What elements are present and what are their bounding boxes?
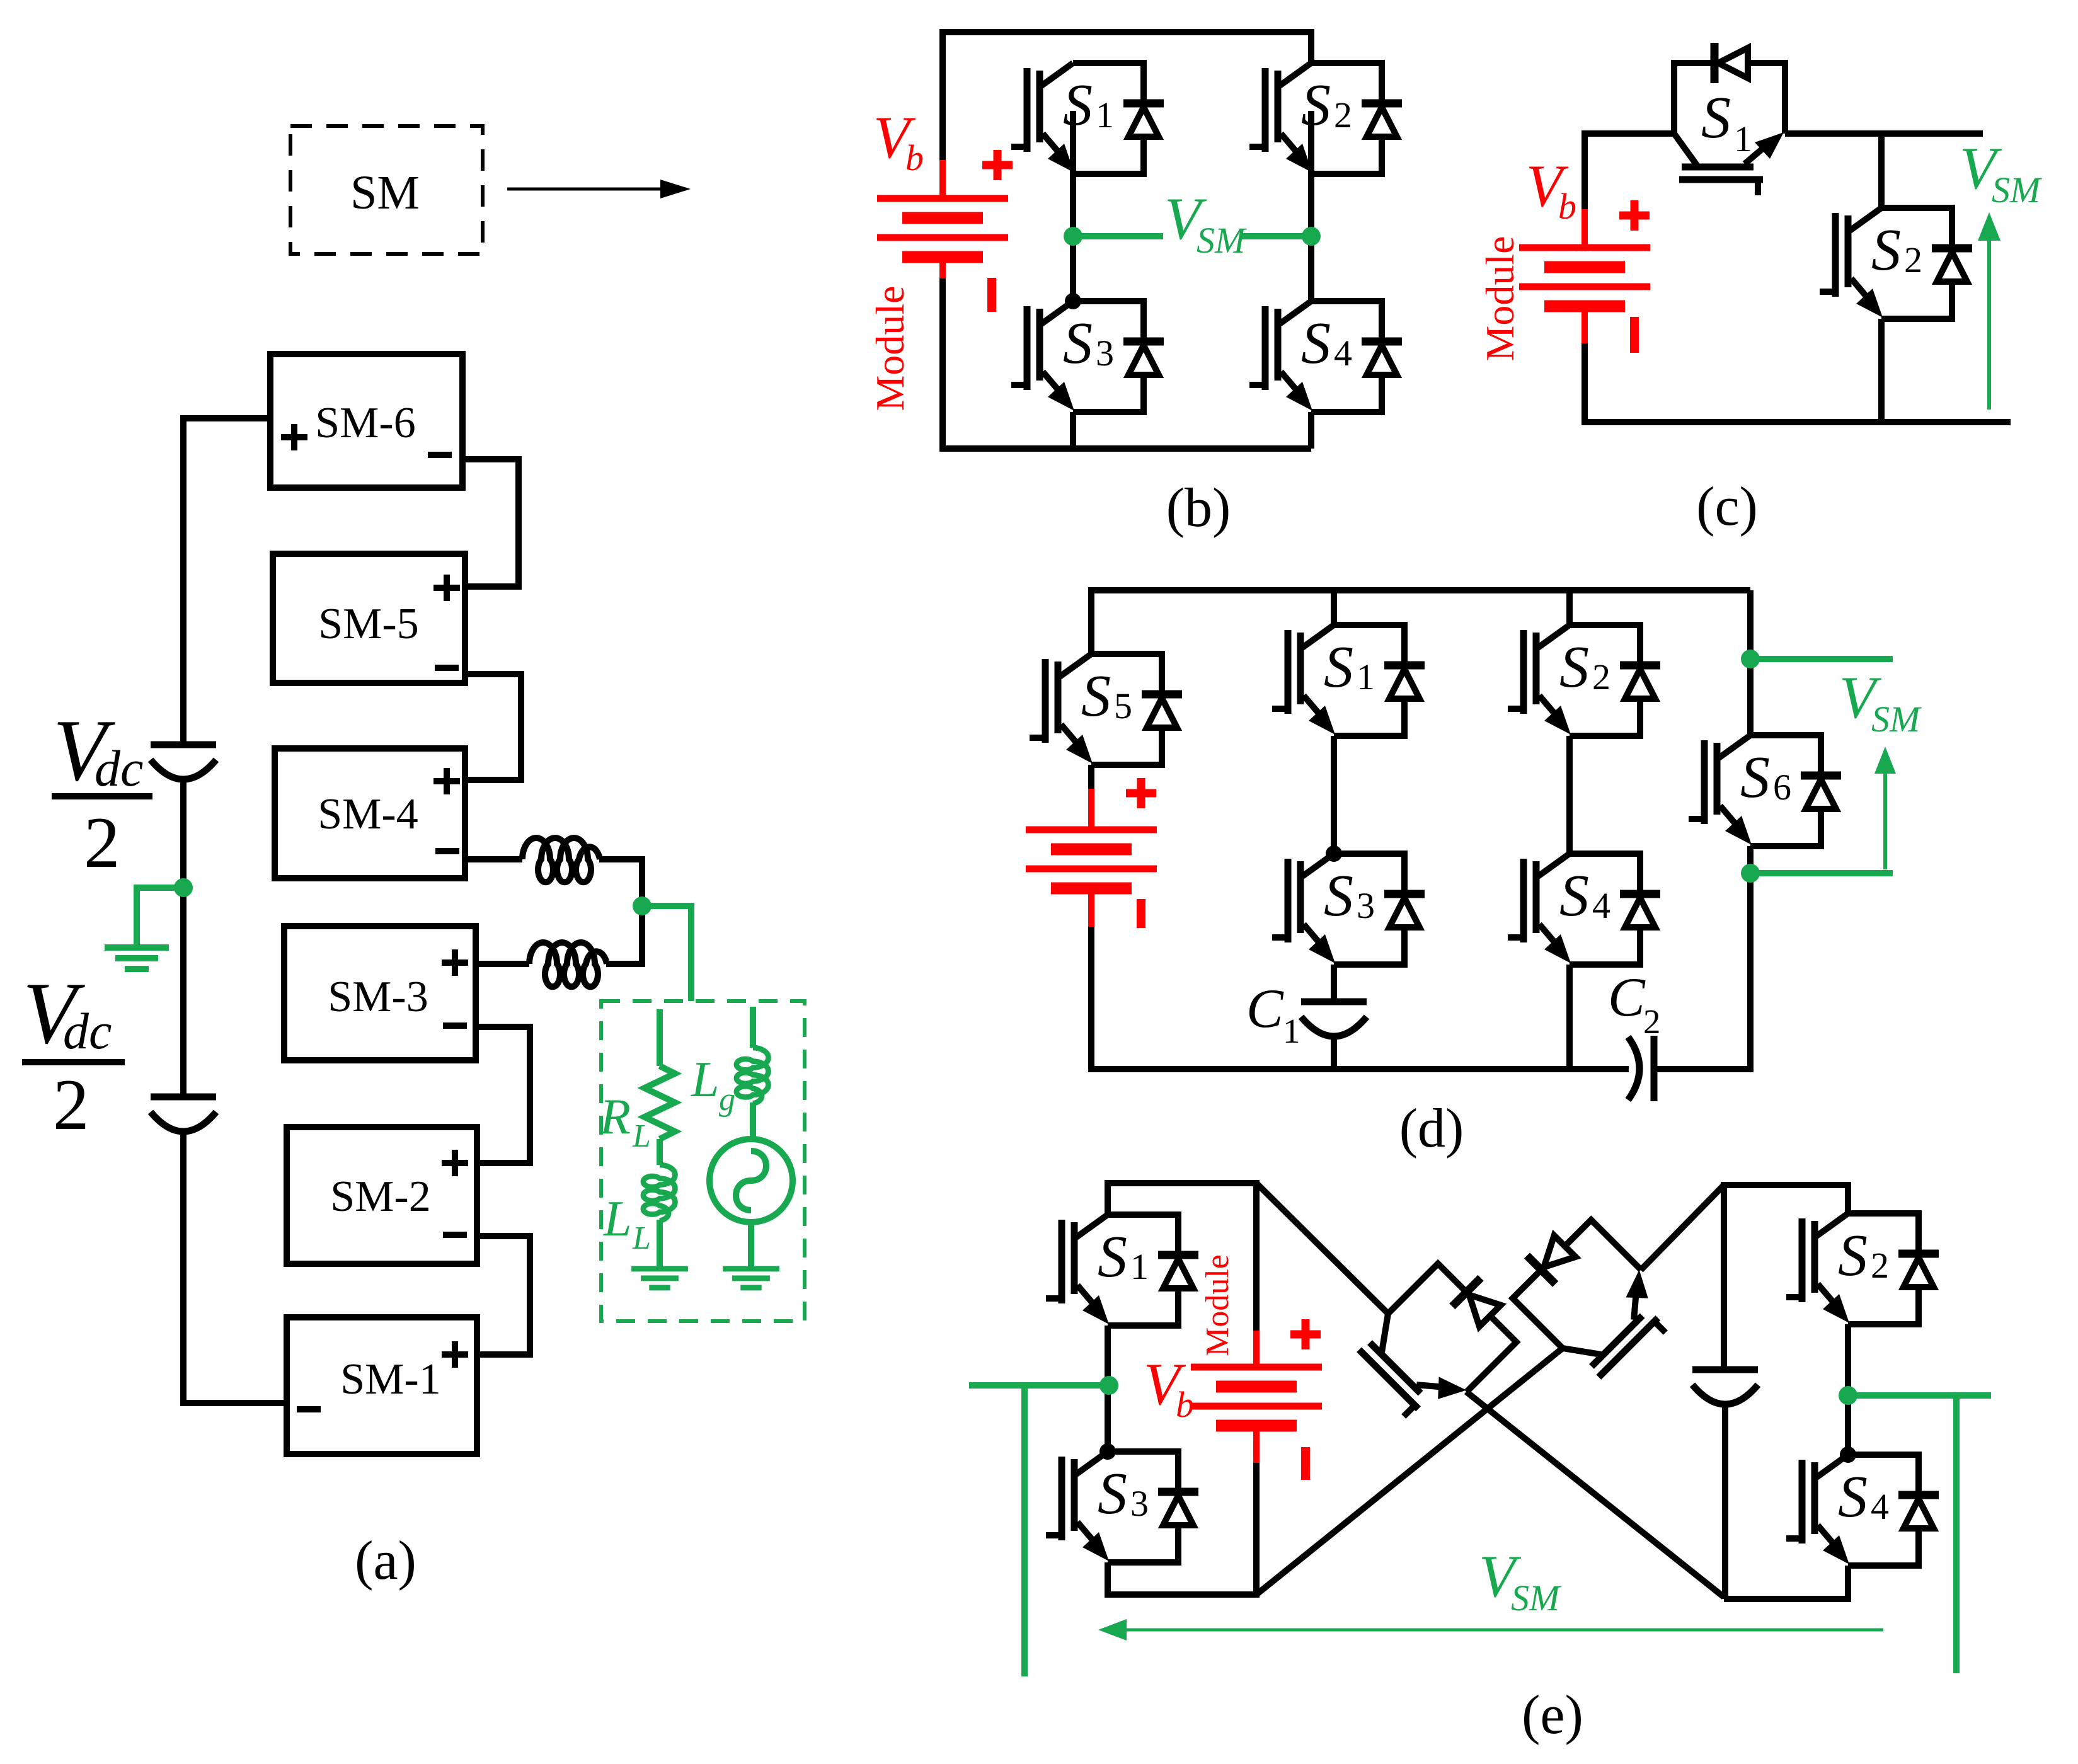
label Vdc/2 lower xyxy=(23,965,112,1145)
wire S3 emitter to C1 xyxy=(1331,965,1337,1002)
wire S2 emitter to bottom rail xyxy=(1878,319,1885,422)
igbt S2 xyxy=(1820,208,1972,319)
ground source branch xyxy=(723,1269,779,1288)
wire SM-6 to SM-5 xyxy=(462,459,519,587)
svg-text:L: L xyxy=(603,1191,632,1247)
wire cross diagonal 1 lower xyxy=(1466,1392,1724,1597)
svg-text:S: S xyxy=(1098,1224,1127,1290)
svg-text:SM-3: SM-3 xyxy=(328,973,428,1021)
svg-text:(b): (b) xyxy=(1166,478,1231,539)
svg-text:S: S xyxy=(1838,1464,1868,1530)
inductor upper arm xyxy=(522,838,600,882)
battery Vb xyxy=(868,104,1013,411)
svg-text:2: 2 xyxy=(1643,1002,1661,1041)
wire S1 to S3 xyxy=(1331,736,1337,854)
svg-text:4: 4 xyxy=(1871,1486,1889,1527)
capacitor C2 xyxy=(1628,1037,1639,1100)
wire SM-3 to SM-2 xyxy=(476,1027,530,1163)
svg-text:Module: Module xyxy=(1478,236,1522,361)
wire S4 emitter to bottom rail xyxy=(1566,965,1573,1069)
svg-text:SM-5: SM-5 xyxy=(318,600,418,648)
output node and feeder (green) xyxy=(599,896,805,1321)
submodule box SM-1 xyxy=(287,1317,477,1454)
svg-text:1: 1 xyxy=(1130,1246,1149,1287)
node VSM left (green) xyxy=(1064,185,1321,261)
svg-text:b: b xyxy=(905,137,924,178)
wire S4 emitter to bottom rail xyxy=(1724,1566,1848,1599)
wire SM-2 to SM-1 xyxy=(477,1236,530,1354)
igbt S2 xyxy=(1786,1213,1939,1324)
svg-text:S: S xyxy=(1301,72,1331,138)
igbt S4 xyxy=(1508,854,1660,965)
wire top rail xyxy=(1091,590,1750,654)
svg-text:SM-2: SM-2 xyxy=(330,1172,430,1221)
submodule box SM-2 xyxy=(287,1127,477,1264)
svg-text:SM: SM xyxy=(1511,1578,1561,1618)
svg-text:b: b xyxy=(1176,1384,1194,1425)
inductor Lg xyxy=(737,1048,769,1104)
resistor RL xyxy=(645,1066,675,1139)
svg-text:2: 2 xyxy=(1334,94,1352,135)
label C2 xyxy=(1608,967,1661,1041)
capacitor Vdc/2 upper xyxy=(151,745,216,779)
svg-text:2: 2 xyxy=(53,1065,89,1145)
node S3 collector xyxy=(1099,1443,1116,1460)
wire S1 emitter to S3 xyxy=(1105,1326,1111,1452)
svg-text:(e): (e) xyxy=(1522,1685,1583,1746)
svg-text:S: S xyxy=(1081,663,1111,729)
svg-text:3: 3 xyxy=(1096,333,1114,374)
wire cross diagonal 1 xyxy=(1256,1183,1388,1314)
output nodes (green) xyxy=(1741,650,1922,883)
svg-text:L: L xyxy=(632,1220,651,1256)
capacitor right group xyxy=(1692,1370,1758,1404)
battery Vb xyxy=(1144,1254,1322,1480)
igbt cross A xyxy=(1345,1249,1531,1436)
node S3 collector xyxy=(1065,293,1081,309)
svg-text:dc: dc xyxy=(95,740,143,797)
svg-text:1: 1 xyxy=(1096,94,1114,135)
svg-text:SM-4: SM-4 xyxy=(318,790,418,839)
svg-text:S: S xyxy=(1701,85,1731,151)
label VSM and arrow xyxy=(1839,664,1922,740)
svg-text:(a): (a) xyxy=(355,1530,416,1591)
igbt S5 xyxy=(1030,654,1182,765)
wire S2 emitter to S4 xyxy=(1845,1324,1851,1455)
svg-text:S: S xyxy=(1324,863,1353,929)
svg-text:5: 5 xyxy=(1114,685,1132,726)
svg-text:3: 3 xyxy=(1130,1483,1149,1524)
wire S2 to S4 xyxy=(1566,736,1573,854)
svg-text:S: S xyxy=(1063,72,1093,138)
wire S2 collector xyxy=(1878,134,1885,208)
label Vdc/2 upper xyxy=(53,702,143,883)
svg-text:C: C xyxy=(1246,978,1284,1039)
igbt S1 xyxy=(1272,625,1425,736)
svg-text:1: 1 xyxy=(1357,656,1375,697)
output terminals (green) xyxy=(969,1376,1991,1676)
node S3 collector xyxy=(1326,845,1342,862)
svg-text:1: 1 xyxy=(1283,1012,1300,1050)
svg-text:g: g xyxy=(719,1082,735,1118)
label VSM and arrow (green) xyxy=(1960,135,2042,409)
svg-text:SM: SM xyxy=(350,166,420,219)
SM legend dashed box xyxy=(290,126,483,254)
igbt S1 xyxy=(1011,63,1164,174)
svg-text:Module: Module xyxy=(868,285,912,411)
wire S5 emitter to battery xyxy=(1088,765,1094,791)
svg-text:S: S xyxy=(1324,634,1353,700)
wire S3 emitter to bottom xyxy=(1108,1462,1256,1595)
submodule box SM-6 xyxy=(270,354,462,488)
svg-text:2: 2 xyxy=(1871,1245,1889,1286)
ground at dc midpoint xyxy=(105,878,193,969)
svg-text:SM-1: SM-1 xyxy=(340,1355,440,1404)
igbt S4 xyxy=(1249,301,1402,412)
wire S3 emitter to bottom rail xyxy=(1070,412,1076,449)
igbt S4 xyxy=(1786,1455,1939,1566)
svg-text:2: 2 xyxy=(1904,239,1922,280)
svg-text:dc: dc xyxy=(63,1002,112,1060)
igbt S2 xyxy=(1508,625,1660,736)
svg-text:2: 2 xyxy=(1592,656,1610,697)
wire bottom rail xyxy=(1585,342,2011,422)
label C1 xyxy=(1246,978,1300,1050)
wire VSM link xyxy=(1073,233,1163,239)
inductor LL xyxy=(643,1165,675,1221)
wire top rail xyxy=(943,32,1311,160)
node S4 collector xyxy=(1840,1446,1856,1463)
svg-text:S: S xyxy=(1063,311,1093,376)
wire S2 emitter to node xyxy=(1308,111,1314,301)
svg-text:L: L xyxy=(632,1118,651,1154)
svg-text:S: S xyxy=(1098,1461,1127,1526)
svg-text:S: S xyxy=(1559,634,1589,700)
wire SM-3 to arm node xyxy=(476,961,529,967)
wire top rail left group xyxy=(1108,1183,1256,1334)
svg-text:(d): (d) xyxy=(1399,1098,1464,1159)
svg-text:3: 3 xyxy=(1357,885,1375,926)
svg-text:2: 2 xyxy=(84,803,120,883)
wire bottom rail xyxy=(943,277,1311,449)
svg-text:4: 4 xyxy=(1334,333,1352,374)
wire S4 emitter to bottom rail xyxy=(1308,412,1314,449)
igbt S1 rotated xyxy=(1674,43,1785,195)
wire S1 collector xyxy=(1331,590,1337,625)
igbt S2 xyxy=(1249,63,1402,174)
wire S1 emitter to node xyxy=(1070,111,1076,301)
inductor lower arm xyxy=(529,942,607,987)
wire left side down xyxy=(1091,927,1629,1069)
submodule box SM-4 xyxy=(275,748,465,878)
capacitor Vdc/2 lower xyxy=(151,1097,216,1131)
wire S2 collector xyxy=(1566,590,1573,625)
svg-text:Module: Module xyxy=(1200,1254,1236,1356)
svg-text:C: C xyxy=(1608,967,1646,1028)
legend arrow xyxy=(507,188,663,191)
submodule box SM-3 xyxy=(284,926,476,1060)
wire bottom rail right xyxy=(1654,846,1750,1069)
wire bus bottom xyxy=(183,1132,287,1403)
label VSM xyxy=(1164,185,1247,261)
wire dc bus top xyxy=(183,418,270,745)
igbt S1 xyxy=(1046,1215,1198,1326)
svg-text:(c): (c) xyxy=(1696,476,1758,537)
load dashed box xyxy=(601,1001,805,1321)
svg-text:1: 1 xyxy=(1734,118,1752,159)
svg-text:S: S xyxy=(1871,217,1901,283)
wire cross diagonal 2 xyxy=(1256,1348,1563,1595)
inductor Lg branch wire xyxy=(750,1007,756,1048)
resistor RL branch wire xyxy=(657,1009,663,1066)
wire SM-4 to arm node xyxy=(465,856,522,862)
wire top rail right group xyxy=(1724,1185,1848,1370)
svg-text:S: S xyxy=(1838,1223,1868,1288)
svg-text:SM: SM xyxy=(1871,699,1922,740)
wire SM-5 to SM-4 xyxy=(465,674,521,780)
capacitor C1 xyxy=(1301,1002,1367,1036)
battery xyxy=(1026,778,1157,928)
svg-text:4: 4 xyxy=(1592,885,1610,926)
battery Vb xyxy=(1478,152,1650,362)
svg-text:b: b xyxy=(1558,186,1576,227)
svg-text:R: R xyxy=(599,1089,631,1145)
submodule box SM-5 xyxy=(273,554,465,683)
wire top rail right xyxy=(1785,130,1983,137)
ground RL branch xyxy=(631,1269,688,1288)
wire top rail left xyxy=(1585,134,1674,209)
svg-text:S: S xyxy=(1559,863,1589,929)
igbt S3 xyxy=(1046,1452,1198,1562)
wire right leg top xyxy=(1747,590,1754,735)
svg-text:L: L xyxy=(691,1052,720,1108)
svg-text:S: S xyxy=(1301,311,1331,376)
label VSM and arrow xyxy=(1479,1543,1561,1618)
svg-text:6: 6 xyxy=(1773,767,1791,808)
wire bus mid xyxy=(180,780,187,1097)
svg-text:SM: SM xyxy=(1197,220,1247,261)
svg-text:SM: SM xyxy=(1992,169,2042,210)
svg-text:S: S xyxy=(1740,745,1770,810)
igbt cross B xyxy=(1498,1206,1685,1392)
ac source xyxy=(709,1139,793,1222)
svg-text:SM-6: SM-6 xyxy=(315,399,415,447)
wire cross diagonal 2 upper xyxy=(1641,1185,1724,1270)
igbt S6 xyxy=(1689,735,1841,846)
igbt S3 xyxy=(1011,301,1164,412)
igbt S3 xyxy=(1272,854,1425,965)
label RL xyxy=(599,1052,735,1256)
